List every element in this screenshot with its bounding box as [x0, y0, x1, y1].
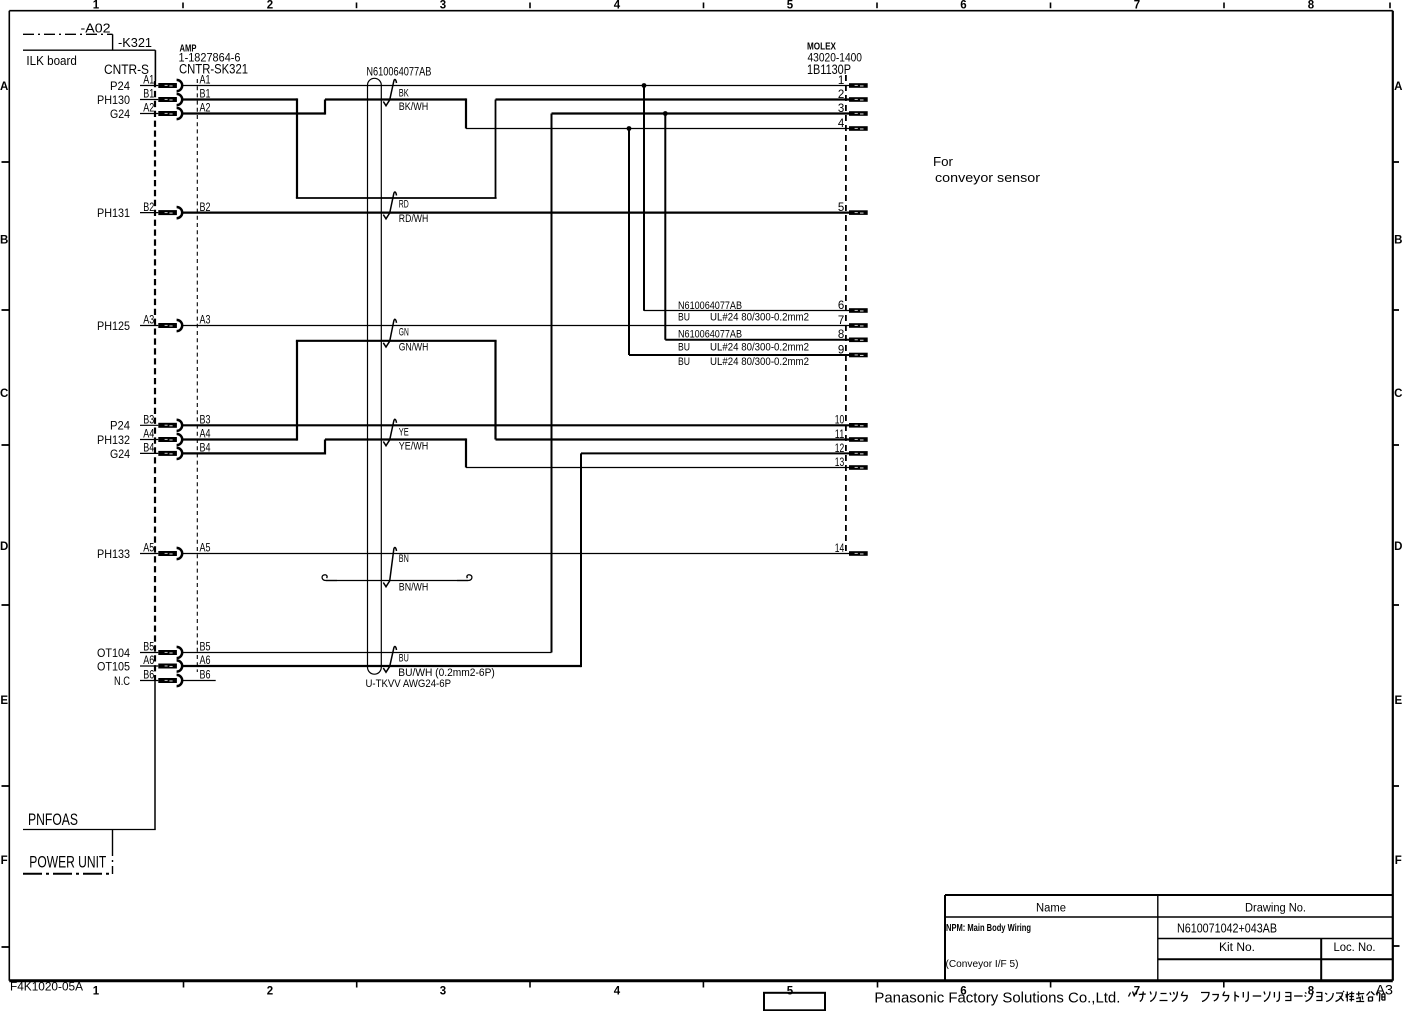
svg-text:E: E: [1394, 695, 1402, 707]
svg-text:CNTR-SK321: CNTR-SK321: [179, 62, 248, 77]
svg-text:F: F: [1, 855, 8, 867]
wire BU net OT104: CNTR B5 right segment: [183, 652, 552, 654]
wire designation slash for GN pair: [383, 319, 396, 347]
connector CNTR-SK321 pin B2: [140, 202, 211, 218]
cable part number N610064077AB: [366, 66, 431, 78]
svg-text:6: 6: [960, 0, 966, 11]
svg-text:N.C: N.C: [114, 674, 130, 688]
net label PH133 at y=553.5: [97, 547, 130, 561]
connector CNTR-SK321 pin B5: [140, 642, 211, 658]
AMP connector boundary dashed line: [196, 79, 198, 672]
svg-text:1: 1: [93, 986, 100, 998]
wire stub N.C at CNTR B6: [183, 680, 216, 682]
wire BU/WH net OT105: CNTR A6 right segment: [183, 665, 582, 667]
connector 1B1130P pin 4: [838, 118, 868, 131]
grid column labels top 1-8: [93, 0, 1315, 11]
svg-text:5: 5: [787, 0, 794, 11]
connector CNTR-SK321 pin B6: [140, 670, 211, 686]
connector 1B1130P pin 11: [835, 429, 868, 442]
connector 1B1130P pin 8: [838, 329, 868, 342]
svg-text:1B1130P: 1B1130P: [807, 62, 851, 77]
svg-text:E: E: [0, 695, 8, 707]
connector CNTR-SK321 pin B4: [140, 443, 211, 459]
grid row tick marks left: [2, 162, 10, 947]
svg-text:2: 2: [267, 986, 273, 998]
wire designation slash for YE pair: [383, 419, 396, 445]
svg-text:U-TKVV AWG24-6P: U-TKVV AWG24-6P: [366, 678, 452, 690]
svg-text:8: 8: [1308, 0, 1315, 11]
MOLEX connector boundary dashed line: [845, 75, 847, 553]
svg-text:3: 3: [440, 0, 446, 11]
svg-text:For: For: [933, 154, 954, 169]
cable label N610064077AB (pin 8): [678, 329, 742, 341]
svg-text:B: B: [0, 235, 8, 247]
wire BU to MOLEX pin 3: [552, 112, 850, 114]
wire color label BK: [399, 87, 409, 99]
svg-text:BU: BU: [678, 341, 690, 353]
svg-text:1: 1: [93, 0, 100, 11]
junction dot on pin3 wire at x=665.3: [663, 111, 668, 116]
svg-text:N610071042+043AB: N610071042+043AB: [1177, 922, 1277, 936]
wire designation slash for BN pair: [383, 548, 396, 587]
cable sheath oval N610064077AB: [368, 78, 382, 674]
connector CNTR-SK321 pin A1: [140, 75, 211, 91]
cable type U-TKVV AWG24-6P: [366, 678, 452, 690]
connector CNTR-SK321 pin A6: [140, 655, 211, 671]
wire GN/WH net PH132: CNTR A4 right segment: [183, 438, 298, 440]
svg-text:4: 4: [614, 0, 621, 11]
grid row labels right A-F: [1394, 81, 1402, 867]
grid column tick marks top: [183, 3, 1390, 9]
svg-text:CNTR-S: CNTR-S: [104, 62, 149, 77]
svg-text:RD: RD: [399, 199, 409, 211]
svg-text:3: 3: [440, 986, 446, 998]
svg-text:PH132: PH132: [97, 433, 130, 447]
wire RD vertical down at x=297: [296, 98, 298, 198]
svg-text:D: D: [0, 541, 8, 553]
svg-text:GN/WH: GN/WH: [399, 342, 429, 354]
wire RD net PH130: CNTR B1 right segment: [183, 98, 298, 100]
wire RD vertical up at x=495.5: [495, 100, 497, 199]
wire BK net P24: CNTR A1 to MOLEX pin 1: [183, 85, 850, 87]
AMP part number 1-1827864-6: [179, 53, 241, 65]
wire BU vertical up at x=551.5: [551, 114, 553, 653]
MOLEX label: [807, 42, 836, 53]
wire color label BN/WH: [399, 582, 429, 594]
wire branch vertical x=665.3 from pin3 row down to pin8 row: [664, 114, 666, 340]
svg-text:A2: A2: [143, 103, 154, 115]
wire color label BU/WH (0.2mm2-6P): [398, 667, 495, 679]
wire GN/WH to MOLEX pin 11: [496, 438, 850, 440]
svg-text:A: A: [1394, 81, 1402, 93]
wire YE/WH horizontal at y=439.5 through cable: [325, 438, 466, 440]
wire RD/WH net PH131: CNTR B2 to MOLEX pin 5: [183, 212, 850, 214]
wire BK/WH net G24: CNTR A2 right segment: [183, 112, 326, 114]
wire branch vertical x=644 from pin1 row down to pin6 row: [643, 86, 645, 311]
svg-text:4: 4: [614, 986, 621, 998]
svg-text:UL#24 80/300-0.2mm2: UL#24 80/300-0.2mm2: [710, 341, 809, 353]
svg-text:C: C: [1394, 388, 1402, 400]
wire designation slash for RD pair: [383, 192, 396, 219]
wire BU/WH to MOLEX pin 12: [581, 452, 849, 454]
wire label BU UL#24 80/300-0.2mm2 (pin 8): [678, 341, 809, 353]
connector 1B1130P pin 10: [835, 415, 868, 428]
svg-text:Drawing No.: Drawing No.: [1245, 903, 1306, 915]
svg-text:RD/WH: RD/WH: [399, 213, 429, 225]
wire BK/WH to MOLEX pin 4: [466, 128, 849, 130]
svg-text:(Conveyor I/F 5): (Conveyor I/F 5): [946, 959, 1019, 970]
svg-text:B: B: [1394, 235, 1402, 247]
svg-text:BN/WH: BN/WH: [399, 582, 429, 594]
CNTR-S connector boundary line (solid + dashed): [154, 50, 156, 680]
connector 1B1130P pin 6: [838, 300, 868, 313]
svg-text:PH131: PH131: [97, 206, 130, 220]
wire RD to MOLEX pin 2: [496, 98, 850, 100]
svg-text:2: 2: [267, 0, 273, 11]
junction dot on pin4 wire at x=629: [627, 126, 632, 131]
wire color label RD/WH: [399, 213, 429, 225]
title block header Name: [1036, 903, 1066, 915]
cable label N610064077AB (pin 6): [678, 300, 742, 312]
svg-text:C: C: [0, 388, 8, 400]
wire color label GN: [399, 327, 409, 339]
junction dot on pin1 wire at x=644: [642, 83, 647, 88]
net label PH131 at y=212.6: [97, 206, 130, 220]
net label P24 at y=425.3: [110, 419, 130, 433]
grid column labels bottom 1-8: [93, 986, 1315, 998]
svg-text:PNFOAS: PNFOAS: [28, 811, 78, 829]
svg-text:PH130: PH130: [97, 93, 130, 107]
svg-text:BK: BK: [399, 87, 409, 99]
MOLEX connector 1B1130P label: [807, 62, 851, 77]
wire label BU UL#24 80/300-0.2mm2 (pin 9): [678, 356, 809, 368]
wire YE/WH vertical up at x=325: [324, 440, 326, 455]
wire BN/WH unused spare with coiled ends: [322, 575, 472, 581]
net label PH132 at y=439.5: [97, 433, 130, 447]
wire PNFOAS from CNTR-S down to power unit: [23, 681, 156, 830]
svg-text:B1: B1: [143, 89, 154, 101]
connector CNTR-SK321 pin A3: [140, 315, 211, 331]
wire branch vertical x=629 from pin4 row down to pin9 row: [628, 129, 630, 356]
title block header Drawing No.: [1245, 903, 1306, 915]
connector 1B1130P pin 7: [838, 315, 868, 328]
net label OT104 at y=652.5: [97, 646, 130, 660]
wire YE/WH to MOLEX pin 13: [466, 467, 849, 469]
connector CNTR-SK321 pin A2: [140, 103, 211, 119]
connector CNTR-SK321 pin A5: [140, 543, 211, 559]
svg-text:OT104: OT104: [97, 646, 130, 660]
connector 1B1130P pin 12: [835, 443, 868, 456]
svg-text:-A02: -A02: [81, 20, 111, 35]
wire GN/WH vertical up at x=297: [296, 341, 298, 441]
svg-text:5: 5: [787, 986, 794, 998]
wire to MOLEX pin 6: [644, 310, 849, 312]
wire color label BU: [399, 653, 409, 665]
wire color label BN: [399, 553, 409, 565]
svg-text:A: A: [0, 81, 8, 93]
svg-text:Name: Name: [1036, 903, 1066, 915]
drawing number N610071042+043AB: [1177, 922, 1277, 936]
connector 1B1130P pin 1: [838, 75, 868, 88]
net label OT105 at y=666: [97, 659, 130, 673]
POWER UNIT enclosure dash-dot boundary: [23, 830, 113, 874]
POWER UNIT label: [29, 853, 106, 871]
wire designation slash for BK pair: [383, 80, 396, 106]
connector 1B1130P pin 14: [835, 543, 868, 556]
wire designation slash for BU pair: [383, 647, 396, 673]
svg-text:N610064077AB: N610064077AB: [678, 300, 742, 312]
subtitle (Conveyor I/F 5): [946, 959, 1019, 970]
svg-text:BU: BU: [399, 653, 409, 665]
company name Japanese katakana (drawn strokes): [1129, 991, 1386, 1002]
svg-text:POWER UNIT: POWER UNIT: [29, 853, 106, 871]
svg-text:PH133: PH133: [97, 547, 130, 561]
svg-text:Panasonic Factory Solutions Co: Panasonic Factory Solutions Co.,Ltd.: [874, 991, 1120, 1007]
wire color label BK/WH: [399, 101, 429, 113]
svg-text:NPM: Main Body Wiring: NPM: Main Body Wiring: [946, 923, 1031, 934]
wire GN/WH horizontal detour at y=340.8: [296, 340, 497, 342]
svg-text:A1: A1: [143, 75, 154, 87]
svg-text:BK/WH: BK/WH: [399, 101, 429, 113]
grid row labels left A-F: [0, 81, 8, 867]
svg-text:F: F: [1395, 855, 1402, 867]
wire YE net P24: CNTR B3 to MOLEX pin 10: [183, 424, 850, 426]
svg-text:Loc. No.: Loc. No.: [1334, 942, 1376, 954]
wire BK/WH horizontal at y=99.5 through cable: [325, 98, 466, 100]
node PNFOAS: [28, 811, 78, 829]
svg-text:YE: YE: [399, 426, 409, 438]
connector 1B1130P pin 3: [838, 103, 868, 116]
svg-text:BU: BU: [678, 312, 690, 324]
MOLEX part number 43020-1400: [808, 53, 863, 65]
wire GN/WH vertical down at x=495.5: [494, 341, 496, 440]
title NPM:Main Body Wiring: [946, 923, 1031, 934]
svg-text:G24: G24: [110, 447, 130, 461]
net label PH130 at y=99.5: [97, 93, 130, 107]
svg-text:UL#24 80/300-0.2mm2: UL#24 80/300-0.2mm2: [710, 312, 809, 324]
svg-text:YE/WH: YE/WH: [399, 441, 429, 453]
wire color label YE: [399, 426, 409, 438]
net label G24 at y=453.4: [110, 447, 130, 461]
svg-text:conveyor sensor: conveyor sensor: [935, 170, 1041, 185]
enclosure label -A02: [81, 20, 111, 35]
wire label BU UL#24 80/300-0.2mm2 (pin 6/7): [678, 312, 809, 324]
svg-text:Kit No.: Kit No.: [1219, 942, 1255, 954]
svg-text:N610064077AB: N610064077AB: [678, 329, 742, 341]
AMP label: [180, 44, 197, 55]
title block header Kit No.: [1219, 942, 1255, 954]
svg-text:F4K1020-05A: F4K1020-05A: [10, 980, 83, 994]
net label PH125 at y=325.5: [97, 319, 130, 333]
connector CNTR-SK321 pin B3: [140, 415, 211, 431]
wire YE/WH vertical down at x=466: [465, 438, 467, 467]
connector CNTR-S label: [104, 62, 149, 77]
title block header Loc. No.: [1334, 942, 1376, 954]
ILK board enclosure -A02 dash-dot boundary: [23, 34, 155, 50]
svg-text:7: 7: [1134, 0, 1140, 11]
connector name -K321: [118, 35, 152, 50]
svg-text:D: D: [1394, 541, 1402, 553]
connector 1B1130P pin 13: [835, 457, 868, 470]
wire BK/WH vertical up at x=325: [324, 100, 326, 115]
wire BN net PH133: CNTR A5 to MOLEX pin 14: [183, 553, 850, 555]
svg-text:G24: G24: [110, 107, 130, 121]
connector CNTR-SK321 pin A4: [140, 429, 211, 445]
wire BU/WH vertical up at x=581: [580, 453, 582, 667]
connector 1B1130P pin 5: [838, 202, 868, 215]
svg-text:P24: P24: [110, 419, 130, 433]
wire to MOLEX pin 9: [629, 354, 849, 356]
revision box bottom center: [764, 993, 825, 1011]
grid row tick marks right: [1393, 162, 1400, 946]
wire GN net PH125: CNTR A3 to MOLEX pin 7: [183, 325, 850, 327]
svg-text:-K321: -K321: [118, 35, 152, 50]
note: For conveyor sensor: [933, 154, 1041, 185]
net label P24 at y=85.5: [110, 79, 130, 93]
svg-text:GN: GN: [399, 327, 409, 339]
svg-text:P24: P24: [110, 79, 130, 93]
svg-text:MOLEX: MOLEX: [807, 42, 836, 53]
svg-text:N610064077AB: N610064077AB: [366, 66, 431, 78]
connector 1B1130P pin 9: [838, 344, 868, 357]
wire BK/WH vertical down at x=466: [465, 98, 467, 128]
net label G24 at y=113.5: [110, 107, 130, 121]
wire YE/WH net G24: CNTR B4 right segment: [183, 452, 326, 454]
svg-text:UL#24 80/300-0.2mm2: UL#24 80/300-0.2mm2: [710, 356, 809, 368]
wire color label GN/WH: [399, 342, 429, 354]
connector CNTR-SK321 label: [179, 62, 248, 77]
grid column tick marks bottom: [184, 981, 1224, 988]
wire color label YE/WH: [399, 441, 429, 453]
wire RD horizontal detour at y=198: [296, 197, 497, 199]
sheet size label A3: [1376, 983, 1394, 998]
title block frame: [945, 895, 1393, 981]
sheet number F4K1020-05A: [10, 980, 83, 994]
connector 1B1130P pin 2: [838, 89, 868, 102]
wire to MOLEX pin 8: [665, 339, 849, 341]
svg-text:ILK board: ILK board: [26, 53, 77, 68]
ILK board text: [26, 53, 77, 68]
company name Panasonic Factory Solutions Co.,Ltd.: [874, 991, 1120, 1007]
svg-text:8: 8: [1308, 986, 1315, 998]
svg-text:BU: BU: [678, 356, 690, 368]
connector CNTR-SK321 pin B1: [140, 89, 211, 105]
svg-text:OT105: OT105: [97, 659, 130, 673]
svg-text:PH125: PH125: [97, 319, 130, 333]
wire color label RD: [399, 199, 409, 211]
net label N.C at y=680.5: [114, 674, 130, 688]
svg-text:BN: BN: [399, 553, 409, 565]
